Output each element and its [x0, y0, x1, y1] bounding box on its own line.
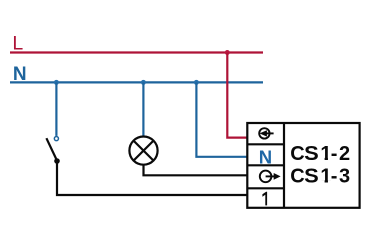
- terminal L-input symbol (circle with left arrow): [259, 128, 273, 138]
- svg-text:S: S: [304, 143, 319, 165]
- wire: N drop to switch terminal: [55, 82, 57, 135]
- wire: L drop to box input terminal: [227, 53, 247, 138]
- junction dot on N line at lamp: [141, 80, 146, 85]
- wire: N to box N terminal: [196, 82, 247, 156]
- svg-text:1-3: 1-3: [320, 166, 350, 188]
- wire: neutral line N: [10, 81, 263, 83]
- device label CS1-2: [290, 143, 350, 165]
- svg-text:S: S: [304, 166, 319, 188]
- device label CS1-3: [290, 166, 350, 188]
- svg-text:C: C: [290, 166, 304, 188]
- junction dot on L line: [225, 50, 230, 55]
- device box CS1-2 / CS1-3 outline: [247, 123, 359, 208]
- switch lever: [46, 138, 57, 160]
- wire: N drop to lamp: [142, 82, 144, 136]
- svg-text:C: C: [290, 143, 304, 165]
- svg-text:N: N: [13, 64, 27, 85]
- wire: switch to box terminal 1: [57, 161, 248, 195]
- junction dot on N line at switch: [54, 80, 59, 85]
- switch terminal circle: [54, 137, 58, 141]
- terminal column divider: [283, 123, 285, 208]
- white masks removing serif foot of digit 1 in CS1-2: [321, 158, 325, 161]
- svg-text:N: N: [259, 146, 272, 167]
- svg-text:L: L: [12, 33, 23, 55]
- switch node dot: [54, 158, 60, 164]
- wire: phase line L: [10, 51, 263, 53]
- white masks removing serif foot of digit 1 in CS1-3: [321, 180, 325, 183]
- terminal cell divider 1: [247, 143, 284, 145]
- terminal 1 label (drawn, Arial-style no-serif digit): [262, 192, 267, 206]
- svg-text:1-2: 1-2: [320, 143, 350, 165]
- wire: lamp to box output terminal: [144, 165, 248, 176]
- terminal cell divider 3: [247, 187, 284, 189]
- terminal output symbol (circle with right arrow): [260, 171, 281, 183]
- junction dot on N line at box: [194, 80, 199, 85]
- lamp E1: [129, 137, 157, 165]
- terminal cell divider 2: [247, 164, 284, 166]
